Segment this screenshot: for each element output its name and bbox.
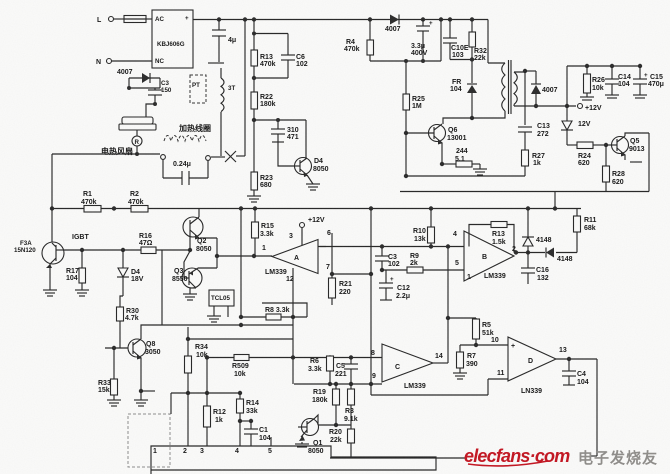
node top rail junctions <box>217 17 474 21</box>
resistor R25 1M <box>403 94 425 135</box>
wire Q5 collector <box>625 133 649 136</box>
connector box CN1 <box>151 446 436 474</box>
resistor R13b 1.5k <box>469 222 514 253</box>
capacitor C12 2.2u <box>379 270 410 300</box>
resistor R27 1k <box>522 150 545 176</box>
wire Q8 base node <box>105 346 129 379</box>
wire B output <box>514 250 577 254</box>
transformer T1 secondary <box>514 71 525 106</box>
wire pin5 tick <box>270 437 272 446</box>
zener 4148 <box>522 209 552 253</box>
SECTION:MIDDLE <box>14 154 597 406</box>
wire gate line <box>64 248 192 252</box>
resistor R33 15k <box>98 379 118 400</box>
wire x241 drop <box>239 209 243 328</box>
node T bar under 4u <box>208 62 224 64</box>
logo underline swoosh <box>468 461 548 466</box>
transistor Q8 3050 <box>128 339 161 360</box>
transformer T1 primary <box>502 60 511 114</box>
wire long vertical x371 <box>370 209 372 385</box>
capacitor C10E 103 <box>443 20 469 60</box>
resistor R2 470k <box>112 191 148 212</box>
fuse F1 <box>114 16 152 23</box>
resistor R16 47 <box>139 233 156 254</box>
resistor R509 10k <box>232 355 249 379</box>
transistor Q5 9013 <box>606 136 645 157</box>
fan motor (heating fan) <box>119 117 156 156</box>
resistor R24 620 <box>567 142 608 167</box>
capacitor C5 221 <box>335 358 358 385</box>
resistor R22 180k <box>251 92 276 172</box>
resistor R1 470k <box>81 191 101 212</box>
resistor R26 10k <box>580 66 605 100</box>
wire secondary top node <box>523 69 536 125</box>
wire R13 bottom node <box>252 76 288 80</box>
heating coil (dashed) <box>164 136 206 142</box>
ground R17 <box>75 290 89 296</box>
wire C output <box>433 362 448 364</box>
transistor Q6 13001 <box>406 124 467 164</box>
resistor R30 4.7k <box>117 296 139 348</box>
node rail junctions <box>50 206 557 210</box>
ground R33 <box>107 400 121 406</box>
ground Q3 <box>183 294 197 300</box>
capacitor C3 102 <box>375 246 400 272</box>
capacitor C14 104 <box>605 66 631 98</box>
transformer winding 3T <box>221 68 235 156</box>
zener D4 18V <box>117 250 144 296</box>
wire y357 run <box>205 355 382 359</box>
op-amp U1B LM339 <box>453 231 516 281</box>
resistor R32 22k <box>450 20 487 84</box>
SECTION:LOGO <box>464 446 658 467</box>
wire Q5 emitter bar <box>625 155 642 162</box>
capacitor 4u <box>212 20 236 63</box>
resistor R23 680 <box>247 172 273 202</box>
wire R25 feed <box>370 20 441 95</box>
wire y394 feedback run <box>371 370 508 395</box>
wire x448 vertical <box>446 247 450 364</box>
op-amp U1A LM339 <box>262 230 331 283</box>
wire Q6 base lower run <box>404 133 525 178</box>
ground IGBT emitter <box>43 290 57 296</box>
capacitor C15 470u <box>633 66 664 98</box>
resistor R11 68k <box>574 209 597 253</box>
transistor D4 8050 <box>294 120 329 190</box>
terminal L <box>97 17 114 25</box>
TCL05 regulator <box>209 290 234 317</box>
node coil terminal right <box>206 156 211 161</box>
wire aux rail top <box>567 64 642 106</box>
transformer PT (dashed box) <box>190 75 206 103</box>
wire D output <box>556 357 597 456</box>
diode 4007 (top) <box>385 15 401 34</box>
terminal N <box>96 59 112 67</box>
resistor R3 9.1k <box>344 384 358 429</box>
IGBT 15N120 <box>14 234 89 290</box>
wire y345 run to D <box>460 337 508 347</box>
wire fan rail <box>52 153 160 155</box>
resistor R17 104 <box>66 250 86 290</box>
wire supply box bottom <box>400 133 649 192</box>
diode FR104 <box>450 79 477 120</box>
SECTION:BOTTOM <box>128 318 597 474</box>
wire main mid rail <box>52 208 581 210</box>
capacitor C13 272 <box>518 123 550 150</box>
wire bottom rail <box>330 456 597 458</box>
transistor Q2 8050 <box>183 209 217 254</box>
diode 4007 (secondary) <box>531 71 558 106</box>
resistor R19 180k <box>312 384 340 427</box>
capacitor C1 104 <box>240 419 271 446</box>
wire rail to supply box <box>554 192 556 209</box>
resistor R5 51k <box>448 318 494 345</box>
ground R7 <box>453 373 467 379</box>
resistor R12 1k <box>204 358 226 447</box>
resistor R6 3.3k <box>308 356 334 384</box>
ground TCL05 <box>207 316 221 322</box>
wire primary bottom to Q6 <box>443 111 505 124</box>
wire y393 run <box>171 391 242 414</box>
resistor R34 10k <box>185 327 294 446</box>
node coil terminal left <box>161 155 166 160</box>
resistor R15 3.3k <box>252 209 274 257</box>
resistor R9 2k <box>382 253 464 273</box>
zener 244 5.1 <box>440 148 487 175</box>
diode 4148 <box>546 248 573 264</box>
wire Q1 collector <box>315 415 351 425</box>
resistor R10 13k <box>413 209 435 247</box>
wire coil feed vertical <box>244 20 246 157</box>
resistor R28 620 <box>603 145 625 192</box>
SECTION:TOPRIGHT <box>344 15 664 192</box>
wire DC+ top rail <box>193 20 505 64</box>
bridge rectifier KBJ606G <box>152 10 193 68</box>
op-amp U1D LM339 <box>508 337 567 395</box>
resistor R14 33k <box>237 393 259 446</box>
resistor R4 470k <box>344 20 374 62</box>
wire N to bridge <box>112 60 152 62</box>
zener 12V <box>561 106 591 145</box>
resistor R7 390 <box>457 345 478 373</box>
wire R16 to x162 drop <box>161 250 163 325</box>
wire y383 run <box>294 382 382 386</box>
capacitor C3 150 <box>148 80 172 106</box>
SECTION:TOPLEFT <box>52 10 505 202</box>
wire A pin12 vertical <box>291 268 295 384</box>
dashed service box <box>128 414 170 467</box>
capacitor 3.3u 400V <box>411 20 433 62</box>
wire A output <box>330 233 334 278</box>
node +12V terminal <box>300 217 325 245</box>
resistor R8 3.3k <box>241 303 307 320</box>
transistor Q3 8550 <box>172 251 217 294</box>
diode 4007 (near N) <box>117 69 160 83</box>
capacitor C4 104 <box>562 359 589 386</box>
capacitor 310 471 <box>254 118 306 166</box>
wire R21 top to rail drop <box>332 272 373 276</box>
wire B pin4 input <box>318 244 464 248</box>
transistor Q1 8050 <box>298 418 324 455</box>
capacitor 0.24u <box>163 159 208 185</box>
wire +12V rail <box>514 104 602 113</box>
resistor R20 22k <box>329 429 355 458</box>
ground Q8 <box>134 400 148 406</box>
ground Q1 <box>295 442 309 447</box>
op-amp U1C LM339 <box>371 344 443 390</box>
wire IGBT collector drop <box>51 154 53 243</box>
resistor R13 470k <box>251 20 276 93</box>
wire cap to fan <box>146 104 155 117</box>
node X crossing mark <box>211 151 245 162</box>
capacitor C16 132 <box>521 253 549 285</box>
capacitor C6 102 <box>254 34 308 79</box>
resistor R21 220 <box>329 278 352 305</box>
wire driver output node <box>215 238 272 268</box>
wire Q8 emitter <box>139 358 155 400</box>
wire diode loop <box>127 78 160 90</box>
wire Q8 collector <box>141 325 293 339</box>
